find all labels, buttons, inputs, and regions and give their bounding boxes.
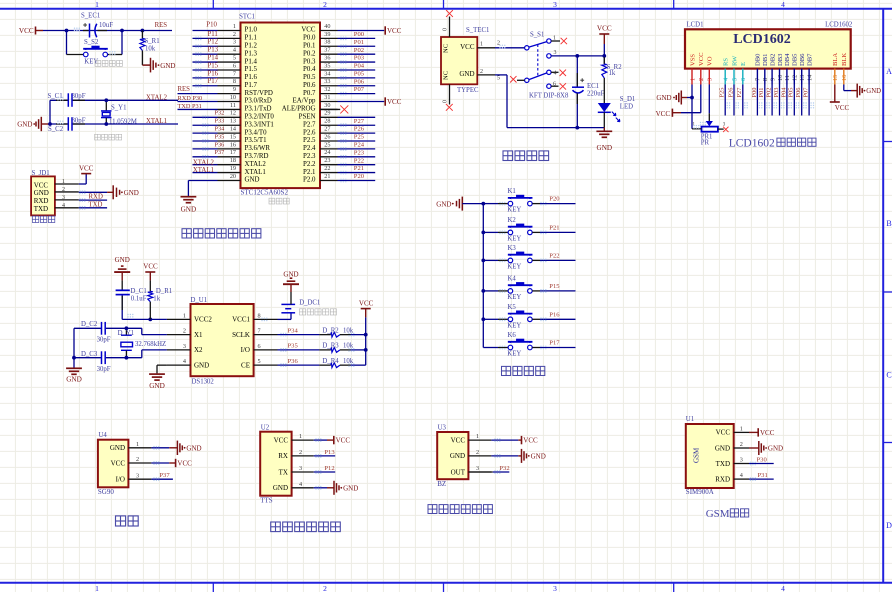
svg-text:3: 3 bbox=[553, 0, 557, 9]
svg-text:XTAL1: XTAL1 bbox=[245, 169, 267, 176]
svg-text:10: 10 bbox=[777, 75, 784, 81]
svg-text:P24: P24 bbox=[354, 141, 365, 148]
svg-text:P13: P13 bbox=[208, 47, 219, 54]
svg-text:DB5: DB5 bbox=[792, 53, 799, 66]
svg-text:XTAL1: XTAL1 bbox=[146, 118, 167, 125]
svg-text:P10: P10 bbox=[206, 21, 217, 28]
svg-text:14: 14 bbox=[230, 126, 236, 133]
svg-text:P01: P01 bbox=[354, 39, 364, 46]
svg-text:9: 9 bbox=[769, 78, 776, 81]
svg-text:VCC1: VCC1 bbox=[232, 316, 250, 324]
svg-text:24: 24 bbox=[324, 149, 330, 156]
svg-text:2: 2 bbox=[740, 441, 743, 448]
svg-text:GND: GND bbox=[17, 120, 32, 128]
svg-text:3: 3 bbox=[740, 457, 743, 464]
svg-text:GND: GND bbox=[343, 484, 358, 492]
svg-text:2: 2 bbox=[62, 187, 65, 193]
svg-text:4: 4 bbox=[183, 358, 186, 365]
svg-text:P3.3/INT1: P3.3/INT1 bbox=[245, 121, 275, 128]
svg-text:P33: P33 bbox=[215, 118, 225, 125]
svg-text:1: 1 bbox=[233, 23, 236, 30]
svg-text:TXD: TXD bbox=[34, 205, 48, 213]
svg-text:K2: K2 bbox=[508, 217, 517, 224]
svg-text:P16: P16 bbox=[549, 311, 560, 318]
svg-text:8: 8 bbox=[258, 312, 261, 319]
svg-text:VCC: VCC bbox=[359, 300, 374, 308]
svg-text:LED: LED bbox=[620, 104, 633, 111]
svg-text:4: 4 bbox=[62, 203, 65, 209]
svg-text:P3.4/T0: P3.4/T0 bbox=[245, 129, 268, 136]
svg-text:RS: RS bbox=[723, 58, 730, 66]
svg-text:KEY: KEY bbox=[507, 351, 521, 358]
svg-text:VCC: VCC bbox=[523, 437, 538, 445]
svg-text:DB6: DB6 bbox=[799, 53, 806, 66]
svg-text:11.0592M: 11.0592M bbox=[109, 119, 137, 126]
svg-text:36: 36 bbox=[324, 54, 330, 61]
svg-text:P1.7: P1.7 bbox=[245, 82, 258, 89]
svg-text:18: 18 bbox=[230, 157, 236, 164]
svg-text:30pF: 30pF bbox=[72, 118, 86, 125]
svg-text:1: 1 bbox=[689, 78, 696, 81]
svg-text:DB0: DB0 bbox=[755, 53, 762, 66]
svg-text:KEY: KEY bbox=[507, 207, 521, 214]
svg-text:15: 15 bbox=[230, 133, 236, 140]
svg-text:I/O: I/O bbox=[116, 476, 125, 484]
svg-text:STC1: STC1 bbox=[239, 14, 255, 21]
svg-text:P15: P15 bbox=[208, 62, 219, 69]
svg-text:P13: P13 bbox=[324, 449, 335, 456]
svg-text:RES: RES bbox=[178, 86, 191, 93]
svg-text:XTAL2: XTAL2 bbox=[146, 95, 168, 102]
svg-text:4: 4 bbox=[781, 584, 785, 592]
svg-text:SIM900A: SIM900A bbox=[686, 488, 714, 496]
svg-text:P00: P00 bbox=[751, 88, 758, 98]
svg-text:P34: P34 bbox=[288, 327, 299, 334]
svg-text:28: 28 bbox=[324, 118, 330, 125]
svg-text:P2.4: P2.4 bbox=[303, 145, 316, 152]
svg-text:P27: P27 bbox=[736, 87, 743, 98]
svg-text:KEY: KEY bbox=[507, 294, 521, 301]
svg-text:S_R1: S_R1 bbox=[145, 38, 160, 45]
svg-text:K6: K6 bbox=[508, 332, 517, 339]
svg-text:TXD: TXD bbox=[716, 460, 730, 468]
svg-text:RW: RW bbox=[731, 55, 738, 66]
svg-text:32.768kHZ: 32.768kHZ bbox=[135, 341, 166, 348]
svg-text:S_S1: S_S1 bbox=[530, 32, 544, 39]
svg-text:C: C bbox=[886, 371, 891, 380]
svg-text:VCC: VCC bbox=[34, 181, 49, 189]
svg-text:VCC: VCC bbox=[387, 27, 402, 35]
svg-text:P0.2: P0.2 bbox=[303, 50, 316, 57]
svg-text:P2.3: P2.3 bbox=[303, 153, 316, 160]
svg-text:P14: P14 bbox=[208, 54, 219, 61]
svg-text:33: 33 bbox=[324, 78, 330, 85]
svg-text:U1: U1 bbox=[686, 416, 694, 423]
svg-text:S_TEC1: S_TEC1 bbox=[466, 27, 489, 34]
svg-text:35: 35 bbox=[324, 62, 330, 69]
svg-text:VCC: VCC bbox=[79, 165, 94, 173]
svg-text:VCC: VCC bbox=[177, 459, 192, 467]
svg-text:EC1: EC1 bbox=[587, 83, 599, 90]
svg-text:12: 12 bbox=[792, 75, 799, 81]
svg-text:P20: P20 bbox=[354, 173, 365, 180]
svg-text:P25: P25 bbox=[354, 134, 365, 141]
svg-text:1k: 1k bbox=[609, 70, 616, 77]
svg-text:VCC: VCC bbox=[698, 52, 705, 66]
svg-text:LCD1602: LCD1602 bbox=[825, 21, 853, 28]
svg-text:P0.5: P0.5 bbox=[303, 74, 316, 81]
svg-text:2: 2 bbox=[476, 449, 479, 456]
svg-text:P00: P00 bbox=[354, 31, 365, 38]
svg-text:S_EC1: S_EC1 bbox=[81, 13, 100, 20]
svg-text:U4: U4 bbox=[99, 432, 108, 439]
svg-text:6: 6 bbox=[553, 82, 556, 88]
svg-text:P26: P26 bbox=[354, 126, 365, 133]
svg-text:P03: P03 bbox=[354, 55, 365, 62]
svg-text:P25: P25 bbox=[719, 88, 726, 98]
svg-text:I/O: I/O bbox=[241, 346, 250, 354]
svg-text:27: 27 bbox=[324, 126, 330, 133]
svg-text:8: 8 bbox=[233, 78, 236, 85]
svg-text:1: 1 bbox=[553, 36, 556, 42]
svg-text:KEY: KEY bbox=[507, 322, 521, 329]
svg-text:1k: 1k bbox=[153, 296, 160, 303]
svg-text:4: 4 bbox=[781, 0, 785, 9]
svg-text:KEY: KEY bbox=[507, 235, 521, 242]
svg-text:GND: GND bbox=[110, 444, 125, 452]
svg-text:VCC: VCC bbox=[301, 27, 316, 34]
svg-text:10: 10 bbox=[230, 94, 236, 101]
svg-text:EA/Vpp: EA/Vpp bbox=[293, 98, 317, 105]
svg-text:DB3: DB3 bbox=[777, 53, 784, 66]
svg-text:S_C2: S_C2 bbox=[48, 126, 64, 133]
svg-text:VCC: VCC bbox=[274, 436, 289, 444]
svg-text:P12: P12 bbox=[324, 465, 334, 472]
svg-text:S_Y1: S_Y1 bbox=[111, 105, 127, 112]
svg-text:1: 1 bbox=[62, 179, 65, 185]
svg-text:KEY: KEY bbox=[507, 263, 521, 270]
svg-text:P0.4: P0.4 bbox=[303, 66, 316, 73]
svg-text:30pF: 30pF bbox=[97, 337, 111, 344]
svg-text:P11: P11 bbox=[208, 31, 218, 38]
svg-text:5: 5 bbox=[258, 358, 261, 365]
svg-text:SCLK: SCLK bbox=[232, 331, 250, 339]
svg-text:VCC: VCC bbox=[387, 98, 402, 106]
svg-text:3: 3 bbox=[476, 465, 479, 472]
svg-text:P1.1: P1.1 bbox=[245, 35, 258, 42]
svg-text:D_R2: D_R2 bbox=[322, 327, 339, 334]
svg-text:0.1uF: 0.1uF bbox=[131, 296, 147, 303]
svg-text:P1.4: P1.4 bbox=[245, 58, 258, 65]
svg-text:GND: GND bbox=[124, 189, 139, 197]
svg-text:P34: P34 bbox=[215, 126, 226, 133]
svg-text:P22: P22 bbox=[354, 157, 364, 164]
svg-text:P21: P21 bbox=[549, 225, 559, 232]
svg-text:34: 34 bbox=[324, 70, 330, 77]
svg-text:TTS: TTS bbox=[260, 496, 273, 504]
svg-text:VSS: VSS bbox=[689, 54, 696, 66]
svg-text:1: 1 bbox=[95, 0, 99, 9]
svg-text:U3: U3 bbox=[438, 425, 447, 432]
svg-text:30pF: 30pF bbox=[97, 366, 111, 373]
svg-text:P16: P16 bbox=[208, 70, 219, 77]
svg-text:NC: NC bbox=[443, 71, 450, 80]
svg-text:P1.5: P1.5 bbox=[245, 66, 258, 73]
svg-text:S_S2: S_S2 bbox=[84, 39, 99, 46]
svg-text:6: 6 bbox=[258, 343, 261, 350]
svg-text:P1.0: P1.0 bbox=[245, 27, 258, 34]
svg-text:XTAL2: XTAL2 bbox=[193, 159, 215, 166]
svg-text:K3: K3 bbox=[508, 245, 517, 252]
svg-text:OUT: OUT bbox=[451, 468, 466, 476]
svg-text:GND: GND bbox=[273, 484, 288, 492]
svg-text:P3.2/INT0: P3.2/INT0 bbox=[245, 114, 275, 121]
svg-text:TYPEC: TYPEC bbox=[457, 87, 479, 94]
svg-text:SG90: SG90 bbox=[98, 488, 114, 496]
svg-text:9: 9 bbox=[233, 86, 236, 93]
svg-text:VCC: VCC bbox=[760, 429, 775, 437]
svg-text:2: 2 bbox=[480, 69, 483, 75]
svg-text:P06: P06 bbox=[795, 88, 802, 98]
svg-text:40: 40 bbox=[324, 23, 330, 30]
svg-text:LCD1602: LCD1602 bbox=[733, 32, 791, 47]
svg-text:3: 3 bbox=[183, 343, 186, 350]
svg-text:1: 1 bbox=[136, 441, 139, 448]
svg-text:25: 25 bbox=[324, 141, 330, 148]
svg-text:P17: P17 bbox=[549, 340, 560, 347]
svg-text:VCC: VCC bbox=[336, 437, 351, 445]
svg-text:P2.0: P2.0 bbox=[303, 177, 316, 184]
svg-text:P0.7: P0.7 bbox=[303, 90, 316, 97]
svg-text:VCC: VCC bbox=[597, 25, 612, 33]
svg-text:D_Y1: D_Y1 bbox=[118, 330, 135, 337]
svg-text:P37: P37 bbox=[159, 472, 170, 479]
svg-text:16: 16 bbox=[230, 141, 236, 148]
svg-text:K4: K4 bbox=[508, 275, 517, 282]
svg-text:DB4: DB4 bbox=[784, 53, 791, 66]
svg-text:P3.5/T1: P3.5/T1 bbox=[245, 137, 268, 144]
svg-text:19: 19 bbox=[230, 165, 236, 172]
svg-text:P05: P05 bbox=[354, 70, 365, 77]
svg-text:P3.7/RD: P3.7/RD bbox=[245, 153, 269, 160]
svg-text:0: 0 bbox=[443, 100, 449, 103]
svg-text:LCD1602: LCD1602 bbox=[729, 137, 775, 149]
svg-text:P1.3: P1.3 bbox=[245, 50, 258, 57]
svg-text:NC: NC bbox=[443, 44, 450, 53]
svg-text:D_DC1: D_DC1 bbox=[299, 299, 320, 306]
svg-text:1: 1 bbox=[740, 426, 743, 433]
svg-text:P3.0/RxD: P3.0/RxD bbox=[245, 98, 272, 105]
svg-text:22: 22 bbox=[324, 165, 330, 172]
svg-text:DB2: DB2 bbox=[769, 54, 776, 66]
svg-text:VCC: VCC bbox=[143, 263, 158, 271]
svg-text:ALE/PROG: ALE/PROG bbox=[282, 106, 316, 113]
svg-text:220uF: 220uF bbox=[587, 90, 605, 97]
svg-text:VCC: VCC bbox=[460, 43, 475, 51]
svg-text:29: 29 bbox=[324, 110, 330, 117]
svg-text:S_C1: S_C1 bbox=[48, 93, 63, 100]
svg-text:BLA: BLA bbox=[832, 53, 839, 66]
svg-text:GND: GND bbox=[459, 70, 474, 78]
svg-text:39: 39 bbox=[324, 31, 330, 38]
svg-text:P35: P35 bbox=[215, 133, 225, 140]
svg-text:2: 2 bbox=[323, 0, 327, 9]
svg-text:VCC: VCC bbox=[111, 459, 126, 467]
svg-text:2: 2 bbox=[136, 456, 139, 463]
svg-text:RES: RES bbox=[155, 22, 168, 29]
svg-text:X1: X1 bbox=[194, 331, 203, 339]
svg-text:20: 20 bbox=[230, 173, 236, 180]
svg-text:P35: P35 bbox=[288, 343, 299, 350]
svg-text:11: 11 bbox=[230, 102, 236, 109]
svg-text:P3.1/TxD: P3.1/TxD bbox=[245, 106, 272, 113]
svg-text:30: 30 bbox=[324, 102, 330, 109]
svg-text:P1.6: P1.6 bbox=[245, 74, 258, 81]
svg-text:8: 8 bbox=[762, 78, 769, 81]
svg-text:D_U1: D_U1 bbox=[191, 297, 208, 304]
svg-text:P2.6: P2.6 bbox=[303, 129, 316, 136]
svg-text:3: 3 bbox=[136, 472, 139, 479]
svg-text:P36: P36 bbox=[288, 358, 299, 365]
svg-text:2: 2 bbox=[299, 449, 302, 456]
svg-text:31: 31 bbox=[324, 94, 330, 101]
svg-text:21: 21 bbox=[324, 173, 330, 180]
svg-text:P12: P12 bbox=[208, 39, 219, 46]
svg-text:P0.1: P0.1 bbox=[303, 42, 316, 49]
svg-text:26: 26 bbox=[324, 133, 330, 140]
svg-text:STC12C5A60S2: STC12C5A60S2 bbox=[241, 189, 289, 197]
svg-text:VCC: VCC bbox=[835, 104, 850, 112]
svg-text:P05: P05 bbox=[788, 88, 795, 98]
svg-text:6: 6 bbox=[233, 62, 236, 69]
svg-text:P02: P02 bbox=[354, 47, 364, 54]
svg-text:PR: PR bbox=[701, 140, 710, 147]
svg-text:GND: GND bbox=[715, 444, 730, 452]
svg-text:2: 2 bbox=[698, 78, 705, 81]
svg-text:P26: P26 bbox=[727, 88, 734, 98]
svg-text:13: 13 bbox=[799, 75, 806, 81]
svg-text:P03: P03 bbox=[773, 88, 780, 98]
svg-text:VCC2: VCC2 bbox=[194, 316, 212, 324]
svg-text:P3.6/WR: P3.6/WR bbox=[245, 145, 271, 152]
svg-text:D_R1: D_R1 bbox=[156, 288, 172, 295]
svg-text:12: 12 bbox=[230, 110, 236, 117]
svg-text:D_R4: D_R4 bbox=[322, 358, 339, 365]
svg-text:CE: CE bbox=[241, 361, 250, 369]
svg-text:3: 3 bbox=[707, 78, 714, 81]
svg-text:5: 5 bbox=[731, 78, 738, 81]
svg-text:P04: P04 bbox=[780, 87, 787, 98]
svg-text:32: 32 bbox=[324, 86, 330, 93]
svg-text:GND: GND bbox=[181, 205, 197, 213]
svg-text:VO: VO bbox=[707, 56, 714, 66]
svg-text:A: A bbox=[886, 67, 892, 76]
svg-text:GND: GND bbox=[866, 88, 881, 95]
svg-text:VCC: VCC bbox=[451, 436, 466, 444]
svg-text:P06: P06 bbox=[354, 78, 365, 85]
svg-text:TX: TX bbox=[279, 468, 288, 476]
svg-text:0: 0 bbox=[443, 28, 449, 31]
svg-text:5: 5 bbox=[233, 54, 236, 61]
svg-text:DB7: DB7 bbox=[806, 53, 813, 66]
svg-text:U2: U2 bbox=[261, 425, 270, 432]
svg-text:3: 3 bbox=[554, 50, 557, 56]
svg-text:E: E bbox=[740, 62, 747, 66]
svg-text:D_C3: D_C3 bbox=[81, 351, 98, 358]
svg-text:17: 17 bbox=[230, 149, 236, 156]
svg-text:GND: GND bbox=[656, 94, 671, 102]
svg-text:3: 3 bbox=[233, 39, 236, 46]
svg-text:GND: GND bbox=[115, 256, 130, 264]
svg-text:GND: GND bbox=[283, 270, 298, 278]
svg-text:P15: P15 bbox=[549, 283, 560, 290]
svg-text:2: 2 bbox=[183, 328, 186, 335]
svg-text:P31: P31 bbox=[758, 472, 768, 479]
svg-text:11: 11 bbox=[784, 75, 791, 81]
svg-text:GND: GND bbox=[149, 382, 165, 390]
svg-text:P36: P36 bbox=[215, 141, 225, 148]
svg-text:P01: P01 bbox=[758, 88, 765, 98]
svg-text:GND: GND bbox=[160, 62, 175, 70]
svg-text:P22: P22 bbox=[549, 253, 559, 260]
svg-text:GND: GND bbox=[245, 177, 260, 184]
svg-text:6: 6 bbox=[740, 78, 747, 81]
svg-text:GND: GND bbox=[531, 452, 546, 460]
svg-text:P17: P17 bbox=[208, 78, 219, 85]
svg-text:P04: P04 bbox=[354, 63, 365, 70]
svg-text:1: 1 bbox=[95, 584, 99, 592]
svg-text:GND: GND bbox=[186, 444, 201, 452]
svg-text:BZ: BZ bbox=[437, 480, 446, 488]
svg-text:VCC: VCC bbox=[716, 429, 731, 437]
svg-text:RXD P30: RXD P30 bbox=[178, 95, 203, 102]
svg-text:B: B bbox=[886, 219, 891, 228]
svg-text:KEY: KEY bbox=[84, 58, 98, 65]
svg-text:4: 4 bbox=[740, 472, 743, 479]
svg-text:RXD: RXD bbox=[34, 197, 49, 205]
svg-text:38: 38 bbox=[324, 39, 330, 46]
svg-text:P32: P32 bbox=[499, 465, 509, 472]
svg-text:5: 5 bbox=[497, 76, 500, 82]
svg-text:P2.1: P2.1 bbox=[303, 169, 316, 176]
svg-text:PSEN: PSEN bbox=[299, 114, 316, 121]
svg-text:GND: GND bbox=[34, 189, 49, 197]
svg-text:2: 2 bbox=[233, 31, 236, 38]
svg-text:GND: GND bbox=[768, 445, 783, 453]
svg-text:4: 4 bbox=[554, 70, 557, 76]
svg-text:1: 1 bbox=[299, 433, 302, 440]
svg-text:1: 1 bbox=[476, 433, 479, 440]
svg-text:D_R3: D_R3 bbox=[322, 343, 339, 350]
svg-text:D_C1: D_C1 bbox=[131, 288, 147, 295]
svg-text:P21: P21 bbox=[354, 165, 364, 172]
svg-text:DB1: DB1 bbox=[762, 54, 769, 66]
svg-text:37: 37 bbox=[324, 47, 330, 54]
svg-text:K1: K1 bbox=[508, 188, 516, 195]
svg-text:16: 16 bbox=[841, 75, 848, 81]
svg-text:4: 4 bbox=[233, 47, 236, 54]
svg-text:K5: K5 bbox=[508, 304, 517, 311]
svg-text:P2.2: P2.2 bbox=[303, 161, 316, 168]
svg-text:LCD1: LCD1 bbox=[687, 21, 704, 28]
svg-text:RST/VPD: RST/VPD bbox=[245, 90, 273, 97]
svg-text:S_D1: S_D1 bbox=[620, 96, 636, 103]
svg-text:XTAL2: XTAL2 bbox=[245, 161, 267, 168]
svg-text:X2: X2 bbox=[194, 346, 203, 354]
svg-text:P23: P23 bbox=[354, 149, 365, 156]
svg-text:23: 23 bbox=[324, 157, 330, 164]
svg-text:GND: GND bbox=[194, 361, 209, 369]
